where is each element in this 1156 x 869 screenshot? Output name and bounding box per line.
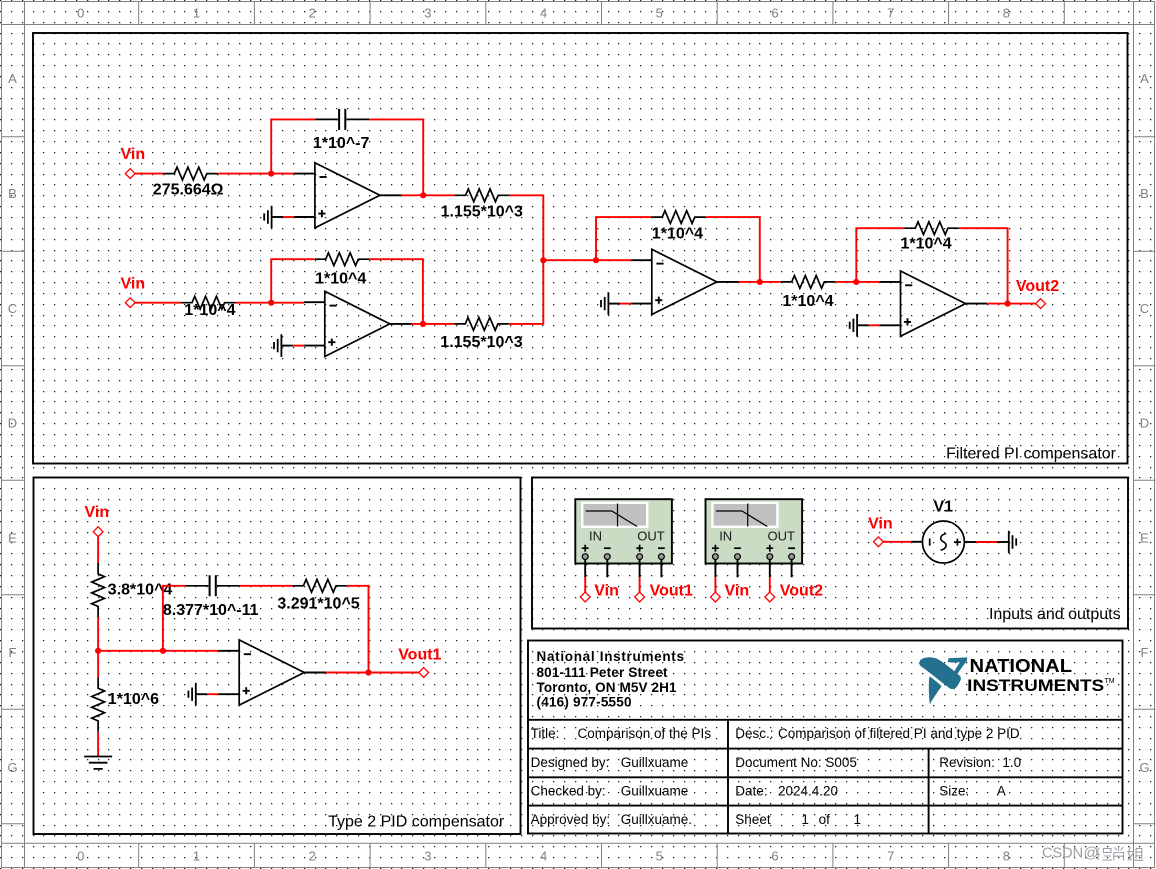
svg-text:Vout2: Vout2 xyxy=(780,582,823,599)
wire ground to U5 plus xyxy=(207,693,218,695)
node Vin (stage 2 input label) xyxy=(121,275,146,292)
designed by row xyxy=(531,755,1021,770)
logo text NATIONAL INSTRUMENTS xyxy=(967,655,1115,695)
svg-text:2024.4.20: 2024.4.20 xyxy=(778,783,838,798)
wire U1 output to R3 xyxy=(402,194,455,196)
wire node B1 to node B2 xyxy=(98,650,163,652)
junction U5 output xyxy=(365,669,371,675)
box: Type 2 PID compensator sheet xyxy=(34,478,521,835)
resistor 1*10^4 (between U3 and U4) xyxy=(781,276,835,289)
svg-text:Designed by:: Designed by: xyxy=(531,755,610,770)
connector Vout2 block B xyxy=(765,592,775,602)
svg-text:A: A xyxy=(8,71,17,86)
svg-text:Title:: Title: xyxy=(531,726,560,741)
op-amp U1 xyxy=(294,163,401,228)
box: Inputs and outputs sheet xyxy=(532,478,1128,629)
wire R10 to ground xyxy=(97,732,99,757)
svg-text:F: F xyxy=(9,645,17,660)
junction node B1 xyxy=(95,648,101,654)
company address block xyxy=(537,649,685,709)
resistor 275.664ohm xyxy=(163,167,217,180)
connector Vin block A xyxy=(580,592,590,602)
node Vin (stage 1 input label) xyxy=(121,146,146,163)
node label Vout2 block B xyxy=(780,582,823,599)
svg-text:5: 5 xyxy=(656,849,663,864)
label 1*10^4 U3 fb xyxy=(652,225,703,242)
svg-text:C: C xyxy=(8,301,17,316)
node Vout1 label xyxy=(398,647,441,664)
svg-text:E: E xyxy=(1140,530,1149,545)
resistor 1*10^6 (vertical) xyxy=(92,677,105,731)
svg-text:1*10^4: 1*10^4 xyxy=(315,270,366,287)
svg-text:2: 2 xyxy=(309,6,316,21)
junction U1 output xyxy=(420,192,426,198)
wire node B1 down to R10 xyxy=(97,651,99,678)
svg-text:4: 4 xyxy=(540,6,547,21)
junction U2 output xyxy=(420,321,426,327)
svg-text:3.291*10^5: 3.291*10^5 xyxy=(277,596,359,613)
svg-text:1.155*10^3: 1.155*10^3 xyxy=(441,204,523,221)
wire node A2 to U2 inverting input xyxy=(271,302,304,304)
node label Vin block A xyxy=(594,582,619,599)
svg-text:Guillxuame: Guillxuame xyxy=(621,755,689,770)
wire R2 to node A2 xyxy=(236,302,272,304)
svg-text:1: 1 xyxy=(854,812,862,827)
wire C2 to R11 xyxy=(240,585,293,587)
lead V1 left xyxy=(912,541,923,543)
wire U3 output to R6 xyxy=(739,281,781,283)
svg-text:IN: IN xyxy=(589,529,602,544)
label 1*10^4 U4 fb xyxy=(901,235,952,252)
wire U3 node up to R7 feedback xyxy=(596,217,651,260)
box: Filtered PI compensator sheet xyxy=(33,33,1128,464)
svg-text:TM: TM xyxy=(1105,678,1115,685)
svg-text:CSDN: CSDN xyxy=(1042,846,1083,862)
svg-text:(416) 977-5550: (416) 977-5550 xyxy=(537,695,632,710)
svg-text:801-111 Peter Street: 801-111 Peter Street xyxy=(537,665,669,680)
label 3.291*10^5 xyxy=(277,596,359,613)
op-amp U4 xyxy=(880,271,987,336)
svg-text:INSTRUMENTS: INSTRUMENTS xyxy=(967,676,1104,695)
wire node B2 up to C2 branch xyxy=(163,586,186,651)
svg-text:3: 3 xyxy=(424,849,431,864)
label V1 xyxy=(934,498,954,515)
resistor 1.155*10^3 (stage2 out) xyxy=(454,318,508,331)
svg-text:1*10^4: 1*10^4 xyxy=(652,225,703,242)
wire U4 node to inverting input xyxy=(856,281,880,283)
svg-text:A: A xyxy=(997,783,1006,798)
label 1*10^4 stage2 fb xyxy=(315,270,366,287)
svg-text:G: G xyxy=(7,760,17,775)
wire R8 to U4 output xyxy=(959,228,1008,303)
caption Inputs and outputs xyxy=(989,606,1121,623)
ground U4 non-inverting xyxy=(850,314,869,337)
svg-text:3: 3 xyxy=(424,6,431,21)
svg-text:1*10^4: 1*10^4 xyxy=(782,293,833,310)
svg-text:of: of xyxy=(819,812,831,827)
node Vin (PID input label) xyxy=(85,504,110,521)
resistor 1*10^4 (U4 feedback) xyxy=(904,222,958,235)
wire ground to U3 plus xyxy=(620,303,631,305)
connector Vout1 xyxy=(419,668,429,678)
source V1 xyxy=(922,521,964,563)
wire R5 to U2 output xyxy=(369,259,423,324)
label 275.664 ohm xyxy=(153,181,224,198)
svg-text:Checked by:: Checked by: xyxy=(531,783,606,798)
caption Filtered PI compensator xyxy=(946,445,1117,462)
svg-text:6: 6 xyxy=(771,6,778,21)
wire node A1 up to C1 branch xyxy=(271,119,315,173)
wire Vin down to R9 xyxy=(97,537,99,563)
lead V1 right xyxy=(964,541,976,543)
label 1*10^4 mid xyxy=(782,293,833,310)
svg-text:V1: V1 xyxy=(934,498,954,515)
connector Vout1 block A xyxy=(635,592,645,602)
svg-text:8: 8 xyxy=(1003,849,1010,864)
svg-text:Sheet: Sheet xyxy=(735,812,771,827)
wire node B2 to U5 inverting input xyxy=(163,650,219,652)
svg-text:Revision: 1.0: Revision: 1.0 xyxy=(939,755,1021,770)
checked by row xyxy=(531,783,1006,798)
watermark CSDN xyxy=(1042,845,1143,862)
wire R1 to node A1 xyxy=(218,173,271,175)
wire node A1 to U1 inverting input xyxy=(271,173,294,175)
svg-text:5: 5 xyxy=(656,6,663,21)
svg-text:B: B xyxy=(8,186,17,201)
svg-text:D: D xyxy=(8,416,17,431)
svg-text:7: 7 xyxy=(887,6,894,21)
capacitor 1*10^-7 xyxy=(315,109,369,130)
node Vout2 label xyxy=(1016,278,1059,295)
wire V1 to ground xyxy=(976,541,998,543)
label 1.155*10^3 stage2 xyxy=(440,334,522,351)
wire U3 node to inverting input xyxy=(596,259,631,261)
svg-text:NATIONAL: NATIONAL xyxy=(970,655,1073,676)
junction U4 output xyxy=(1005,301,1011,307)
connector Vout2 xyxy=(1036,299,1046,309)
wire R11 to U5 output xyxy=(347,586,369,673)
svg-text:1*10^4: 1*10^4 xyxy=(901,235,952,252)
svg-text:@: @ xyxy=(1084,845,1099,862)
connector Vin PID xyxy=(93,527,103,537)
svg-text:8.377*10^-11: 8.377*10^-11 xyxy=(163,602,259,619)
wire R6 to U4 input node xyxy=(835,281,856,283)
junction node B2 xyxy=(160,648,166,654)
connector Vin block B xyxy=(711,592,721,602)
wire ground to U1 plus xyxy=(283,216,294,218)
wire R3 to mix node xyxy=(509,195,543,260)
svg-text:Toronto, ON M5V 2H1: Toronto, ON M5V 2H1 xyxy=(537,680,677,695)
svg-text:Desc.:: Desc.: xyxy=(735,726,773,741)
label 1*10^-7 xyxy=(313,135,370,152)
svg-text:Guillxuame.: Guillxuame. xyxy=(621,812,692,827)
wire block B IN+ to connector xyxy=(714,577,716,592)
svg-text:Vout2: Vout2 xyxy=(1016,278,1059,295)
svg-text:8: 8 xyxy=(1003,6,1010,21)
junction U4 input node xyxy=(853,279,859,285)
ground U5 non-inverting xyxy=(188,683,207,706)
svg-text:1*10^-7: 1*10^-7 xyxy=(313,135,370,152)
transfer function block A xyxy=(575,499,672,577)
node label Vin block B xyxy=(725,582,750,599)
ground V1 (mirrored) xyxy=(997,531,1016,554)
svg-text:7: 7 xyxy=(887,849,894,864)
junction node A1 xyxy=(268,171,274,177)
svg-text:Comparison of filtered PI and: Comparison of filtered PI and type 2 PID xyxy=(778,726,1020,741)
wire block B OUT+ to connector xyxy=(769,577,771,592)
wire block A OUT+ to connector xyxy=(639,577,641,592)
wire node A2 up to R5 feedback xyxy=(271,259,315,303)
wire Vin to R2 xyxy=(135,302,181,304)
svg-text:0: 0 xyxy=(77,6,84,21)
wire Vin to R1 xyxy=(135,173,163,175)
junction U3 input node xyxy=(593,257,599,263)
svg-text:National Instruments: National Instruments xyxy=(537,649,685,664)
svg-text:A: A xyxy=(1140,71,1149,86)
svg-text:1: 1 xyxy=(193,849,200,864)
junction mix node xyxy=(540,257,546,263)
resistor 3.291*10^5 xyxy=(293,579,347,592)
svg-text:Vin: Vin xyxy=(85,504,110,521)
svg-text:OUT: OUT xyxy=(767,529,795,544)
wire ground to U4 plus xyxy=(869,324,880,326)
svg-text:D: D xyxy=(1140,416,1149,431)
wire C1 to opamp U1 output xyxy=(369,119,423,195)
logo NI eagle xyxy=(919,657,967,704)
svg-text:Guillxuame: Guillxuame xyxy=(621,783,689,798)
ground U1 non-inverting xyxy=(264,206,283,229)
svg-text:Date:: Date: xyxy=(735,783,767,798)
resistor 1*10^4 (stage2 feedback) xyxy=(315,253,369,266)
ground earth PID xyxy=(84,757,112,769)
svg-text:2: 2 xyxy=(309,849,316,864)
wire mix node to U3 input node xyxy=(543,259,596,261)
op-amp U2 xyxy=(304,291,411,356)
ground U2 non-inverting xyxy=(274,334,293,357)
svg-text:Vin: Vin xyxy=(594,582,619,599)
svg-text:Type 2 PID compensator: Type 2 PID compensator xyxy=(328,813,505,830)
svg-text:4: 4 xyxy=(540,849,547,864)
wire U2 output to R4 xyxy=(412,323,455,325)
svg-text:Vout1: Vout1 xyxy=(650,582,693,599)
svg-text:1.155*10^3: 1.155*10^3 xyxy=(440,334,522,351)
node label Vout1 block A xyxy=(650,582,693,599)
svg-text:Inputs and outputs: Inputs and outputs xyxy=(989,606,1121,623)
svg-text:1*10^4: 1*10^4 xyxy=(184,302,235,319)
op-amp U3 xyxy=(631,249,738,314)
svg-text:E: E xyxy=(8,530,17,545)
svg-text:1*10^6: 1*10^6 xyxy=(108,691,159,708)
node Vin label at V1 xyxy=(868,516,893,533)
wire R7 to U3 output xyxy=(706,217,760,282)
ground U3 non-inverting xyxy=(601,292,620,315)
svg-text:Comparison of the PIs: Comparison of the PIs xyxy=(578,726,712,741)
svg-text:1: 1 xyxy=(801,812,809,827)
wire block A IN+ to connector xyxy=(584,577,586,592)
svg-text:Size:: Size: xyxy=(939,783,969,798)
svg-text:6: 6 xyxy=(771,849,778,864)
svg-text:B: B xyxy=(1140,186,1149,201)
svg-text:C: C xyxy=(1140,301,1149,316)
wire U4 output to Vout2 connector xyxy=(987,303,1035,305)
caption Type 2 PID compensator xyxy=(328,813,505,830)
wire ground to U2 plus xyxy=(293,345,304,347)
svg-text:Vin: Vin xyxy=(868,516,893,533)
transfer function block B xyxy=(706,499,803,577)
resistor 3.8*10^4 (vertical) xyxy=(92,563,105,617)
label 1*10^6 xyxy=(108,691,159,708)
svg-text:1: 1 xyxy=(193,6,200,21)
label 1.155*10^3 stage1 xyxy=(441,204,523,221)
svg-text:Document No: S005: Document No: S005 xyxy=(735,755,857,770)
wire U4 node up to R8 feedback xyxy=(856,228,904,282)
box: title block xyxy=(528,641,1123,834)
svg-text:275.664Ω: 275.664Ω xyxy=(153,181,224,198)
wire R4 to mix node xyxy=(509,260,544,324)
approved by row xyxy=(531,812,861,827)
label 8.377*10^-11 xyxy=(163,602,259,619)
wire R9 to node B1 xyxy=(97,617,99,650)
connector Vin at V1 xyxy=(874,537,884,547)
title row xyxy=(531,726,1020,741)
label 3.8*10^4 xyxy=(108,582,173,599)
junction U3 output xyxy=(757,279,763,285)
resistor 1*10^4 (U3 feedback) xyxy=(651,211,705,224)
svg-text:0: 0 xyxy=(77,849,84,864)
svg-text:Vin: Vin xyxy=(121,146,146,163)
svg-text:F: F xyxy=(1141,645,1149,660)
svg-text:Filtered PI compensator: Filtered PI compensator xyxy=(946,445,1117,462)
svg-text:Approved by:: Approved by: xyxy=(531,812,611,827)
junction node A2 xyxy=(268,300,274,306)
svg-text:Vin: Vin xyxy=(121,275,146,292)
resistor 1*10^4 (stage2 in) xyxy=(181,296,235,309)
wire U5 output to Vout1 xyxy=(326,672,419,674)
wire Vin connector to V1 xyxy=(883,541,911,543)
svg-text:IN: IN xyxy=(719,529,732,544)
capacitor 8.377*10^-11 xyxy=(186,575,240,596)
ruler column numbers 0-8 top and bottom xyxy=(77,6,1010,864)
connector Vin stage2 xyxy=(125,298,135,308)
svg-text:Vin: Vin xyxy=(725,582,750,599)
svg-text:OUT: OUT xyxy=(637,529,665,544)
op-amp U5 xyxy=(219,640,326,705)
resistor 1.155*10^3 (stage1 out) xyxy=(455,189,509,202)
svg-text:G: G xyxy=(1139,760,1149,775)
svg-text:Vout1: Vout1 xyxy=(398,647,441,664)
connector Vin stage1 xyxy=(125,169,135,179)
label 1*10^4 stage2 in xyxy=(184,302,235,319)
